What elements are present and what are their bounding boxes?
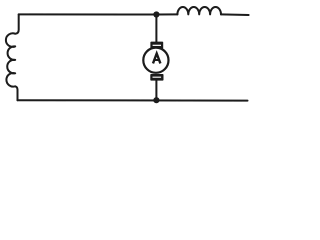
ammeter A1 body circle: [143, 48, 168, 73]
wire ammeter branch top: [155, 15, 157, 43]
wire bottom rail: [18, 99, 248, 101]
wire top rail left (top of field coil to node A): [19, 13, 157, 15]
wire top right lead: [221, 13, 249, 16]
ammeter A1 bottom brush terminal: [150, 74, 163, 81]
ammeter A1 top brush terminal: [150, 42, 163, 49]
node junction dot top: [153, 11, 159, 17]
node junction dot bottom: [153, 97, 159, 103]
inductor L1 shunt field coil (4 scallop loops): [6, 14, 19, 100]
wire ammeter branch bottom: [155, 80, 157, 100]
wire top rail right (node A to series inductor): [156, 13, 177, 15]
ammeter A1 label A (drawn as path): [153, 54, 160, 64]
inductor L2 series winding (4 humps): [177, 7, 221, 14]
